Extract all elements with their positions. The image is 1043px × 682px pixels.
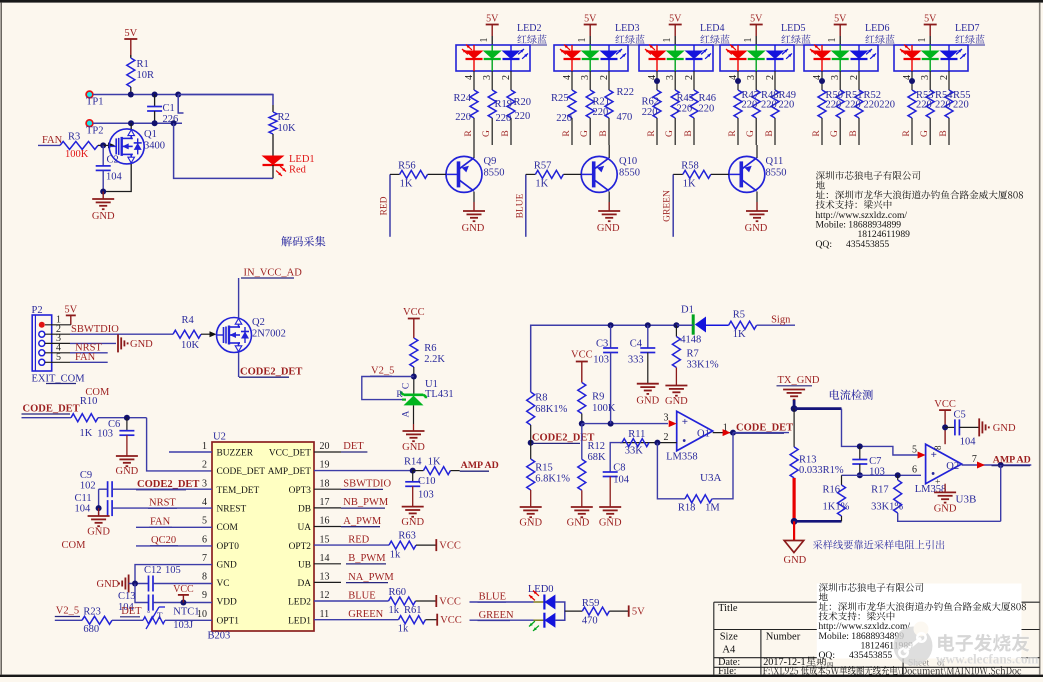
svg-text:B: B xyxy=(939,130,949,136)
resistor R24 col1 xyxy=(470,90,478,118)
svg-text:Q10: Q10 xyxy=(619,156,637,167)
wire LED2 pin4 down xyxy=(473,71,475,90)
wire Q11 collector from LED column xyxy=(756,145,758,158)
LED LED4 pin numbers xyxy=(647,75,695,80)
svg-text:R: R xyxy=(396,390,403,400)
IC U2 body xyxy=(212,442,314,631)
svg-text:5V: 5V xyxy=(64,305,77,316)
wire junction down to C13 xyxy=(135,584,149,603)
ground GND (Q11) xyxy=(746,210,768,212)
svg-text:LM358: LM358 xyxy=(915,484,947,495)
wire U3B output xyxy=(962,464,1032,466)
svg-text:C10: C10 xyxy=(418,476,436,487)
wire FAN to pin5 xyxy=(136,526,212,528)
svg-text:4: 4 xyxy=(202,497,207,508)
op-amp U3B (LM358) xyxy=(926,444,962,484)
svg-text:104: 104 xyxy=(613,475,630,486)
svg-text:C9: C9 xyxy=(80,470,92,481)
wire LED5 col2 lower xyxy=(755,118,757,145)
LED LED5 blue element xyxy=(766,45,793,71)
wire U2 pin18 stub xyxy=(314,488,341,490)
junction CODE2_DET (R8/R15) xyxy=(528,440,534,446)
svg-text:LED2: LED2 xyxy=(288,598,311,608)
svg-text:R1: R1 xyxy=(137,59,149,70)
svg-text:R: R xyxy=(812,130,822,137)
svg-text:5V: 5V xyxy=(669,14,682,25)
wire LED7 col2 lower xyxy=(929,118,931,145)
wire thick to C7 column xyxy=(794,407,841,410)
svg-text:R: R xyxy=(728,130,738,137)
LED LED3 pin numbers xyxy=(562,75,610,80)
svg-text:A: A xyxy=(402,410,412,417)
wire bottom row (sense) xyxy=(794,520,841,523)
svg-text:R2: R2 xyxy=(278,112,290,123)
wire LED3 col2 lower xyxy=(589,118,591,145)
wire top rail (amp) xyxy=(531,325,694,392)
svg-text:220: 220 xyxy=(953,100,969,111)
resistor R51 col2 xyxy=(836,90,844,118)
svg-text:C4: C4 xyxy=(630,339,643,350)
labels LED2 resistors xyxy=(453,93,531,124)
svg-text:333: 333 xyxy=(628,355,644,366)
svg-text:LED0: LED0 xyxy=(528,584,554,595)
svg-text:VCC: VCC xyxy=(439,541,461,552)
svg-text:G: G xyxy=(580,130,590,137)
svg-text:A_PWM: A_PWM xyxy=(343,516,382,527)
wire U2 pin1 stub xyxy=(169,451,212,453)
wire LED2 pin3 down xyxy=(491,71,493,90)
svg-text:104: 104 xyxy=(960,437,977,448)
svg-text:8550: 8550 xyxy=(619,168,640,179)
svg-text:GND: GND xyxy=(567,518,590,529)
svg-text:12: 12 xyxy=(320,590,330,601)
wire C12 to pin8 xyxy=(153,583,212,585)
svg-text:R21: R21 xyxy=(593,97,611,108)
svg-text:B_PWM: B_PWM xyxy=(348,553,386,564)
svg-text:CODE_DET: CODE_DET xyxy=(736,423,793,434)
ground GND (C10) xyxy=(402,506,424,508)
LED LED7 blue element xyxy=(940,45,967,71)
capacitor C6 xyxy=(126,418,128,431)
resistor R60 xyxy=(389,597,416,605)
svg-text:R16: R16 xyxy=(823,485,841,496)
title block grid xyxy=(714,602,1040,674)
net BLUE vertical wire xyxy=(525,174,527,236)
wire bracket to R59 xyxy=(565,610,583,612)
text company info block (top) xyxy=(816,171,1024,250)
junction LED5 pin4 xyxy=(735,78,741,84)
pin P2-3 xyxy=(39,340,45,346)
LED module LED5 header xyxy=(743,14,811,46)
net labels R G B (LED7) xyxy=(902,130,949,137)
resistor R53 col1 xyxy=(908,90,916,118)
net labels R G B (LED4) xyxy=(647,130,694,137)
LED LED0 blue element xyxy=(544,595,555,610)
wire U2 pin17 stub xyxy=(314,507,341,509)
wire V2_5 feedback loop xyxy=(362,377,414,400)
svg-text:11: 11 xyxy=(320,609,330,620)
svg-text:220: 220 xyxy=(826,100,842,111)
svg-text:6.8K1%: 6.8K1% xyxy=(535,474,570,485)
wire LED7 pin2 down xyxy=(948,71,950,90)
resistor R47 col1 xyxy=(734,90,742,118)
svg-text:104: 104 xyxy=(106,172,123,183)
svg-text:VC: VC xyxy=(217,579,230,589)
bottom border bar xyxy=(0,675,1043,677)
resistor R1 xyxy=(127,58,135,87)
power 5V (LED0) xyxy=(628,605,630,616)
wire U2 pin11 (GREEN) xyxy=(314,619,398,621)
svg-text:R14: R14 xyxy=(404,457,422,468)
svg-text:GND: GND xyxy=(92,211,115,222)
wire U2 pin19 (AMP_DET) xyxy=(314,470,413,472)
net GREEN vertical wire xyxy=(672,174,674,236)
LED module LED3 box xyxy=(554,45,628,71)
svg-text:FAN: FAN xyxy=(75,352,96,363)
wire LED4 pin3 down xyxy=(674,71,676,90)
wire C9 left xyxy=(99,488,108,490)
junction LED7 pin4 xyxy=(909,78,915,84)
resistor R22 col3 xyxy=(605,90,613,118)
resistor R2 xyxy=(269,112,277,134)
svg-text:R10: R10 xyxy=(80,396,98,407)
wire Q9 collector from LED column xyxy=(473,145,475,158)
wire R16 to -in row xyxy=(841,475,843,485)
svg-text:V2_5: V2_5 xyxy=(56,606,79,617)
svg-text:2: 2 xyxy=(939,75,950,80)
svg-text:220: 220 xyxy=(845,100,861,111)
transistor Q10 (8550) xyxy=(581,156,617,192)
pin P2-5 xyxy=(39,359,45,365)
power 5V (P2) xyxy=(66,314,76,316)
svg-text:1K: 1K xyxy=(733,329,746,340)
svg-text:Q1: Q1 xyxy=(144,129,157,140)
svg-text:3400: 3400 xyxy=(144,141,165,152)
top border bar xyxy=(0,0,1043,3)
transistor Q1 (3400 MOSFET) xyxy=(109,129,144,164)
svg-text:4: 4 xyxy=(562,75,573,80)
power VCC (U3B) xyxy=(939,409,951,411)
LED module LED6 box xyxy=(804,45,878,71)
resistor R25 col1 xyxy=(568,90,576,118)
svg-text:B203: B203 xyxy=(208,631,231,642)
wire +in row to opamp xyxy=(860,446,921,455)
LED module LED3 header xyxy=(577,14,645,46)
svg-text:Q11: Q11 xyxy=(766,156,784,167)
resistor R13 xyxy=(793,409,795,447)
svg-text:NRST: NRST xyxy=(149,498,176,509)
svg-text:R23: R23 xyxy=(83,607,101,618)
power VCC (R63) xyxy=(435,539,437,551)
note 采样线 xyxy=(813,540,944,549)
wire R58 to base xyxy=(711,173,729,175)
svg-text:GREEN: GREEN xyxy=(348,609,383,620)
wire C8 to GND xyxy=(609,477,611,508)
wire R2 to LED1 xyxy=(272,134,274,156)
svg-text:G: G xyxy=(746,130,756,137)
LED LED3 blue element xyxy=(600,45,627,71)
wire R63 to VCC xyxy=(416,544,436,546)
svg-text:R20: R20 xyxy=(514,97,532,108)
svg-text:°: ° xyxy=(147,609,150,618)
svg-text:BLUE: BLUE xyxy=(348,591,375,602)
wire R57 to base xyxy=(563,173,581,175)
svg-text:R6: R6 xyxy=(424,343,436,354)
power 5V (R1) xyxy=(124,38,137,40)
wire LED4 pin2 down xyxy=(693,71,695,90)
svg-text:LED6: LED6 xyxy=(865,23,889,34)
svg-text:GND: GND xyxy=(130,339,153,350)
wire R2 top stub xyxy=(272,105,274,112)
resistor R62 col1 xyxy=(653,90,661,118)
labels LED5 resistors xyxy=(742,90,797,111)
wire R60 to VCC xyxy=(416,600,437,602)
wire gate arrow xyxy=(103,144,109,146)
svg-text:5V: 5V xyxy=(924,14,937,25)
wire LED3 pin4 down xyxy=(571,71,573,90)
svg-text:1K: 1K xyxy=(428,457,441,468)
svg-text:www.elecfans.com: www.elecfans.com xyxy=(936,652,1039,667)
svg-text:V2_5: V2_5 xyxy=(371,366,394,377)
wire AMP_AD feedback xyxy=(1000,465,1002,521)
wire GREEN to LED0 xyxy=(470,619,534,621)
svg-text:R9: R9 xyxy=(592,392,604,403)
svg-text:Red: Red xyxy=(289,165,307,176)
wire NTC1 to pin10 xyxy=(165,619,212,621)
capacitor C11 xyxy=(107,500,109,516)
svg-text:A4: A4 xyxy=(722,645,736,656)
IC U2 right pin names xyxy=(268,449,312,627)
svg-text:TEM_DET: TEM_DET xyxy=(217,486,260,496)
capacitor C13 xyxy=(148,595,150,611)
svg-text:R25: R25 xyxy=(551,93,569,104)
junction U3A out xyxy=(730,430,736,436)
svg-text:G: G xyxy=(830,130,840,137)
net labels R G B (LED5) xyxy=(728,130,775,137)
svg-text:UB: UB xyxy=(298,560,311,570)
junction VCC (pin9) xyxy=(180,600,186,606)
wire to U2 pin2 xyxy=(147,418,212,471)
wire Q10 base row xyxy=(526,173,536,175)
svg-text:8: 8 xyxy=(933,445,943,450)
svg-text:AMP AD: AMP AD xyxy=(993,455,1031,466)
svg-text:3: 3 xyxy=(202,478,207,489)
svg-text:14: 14 xyxy=(320,553,330,564)
wire TX_GND down xyxy=(793,400,796,409)
svg-text:R4: R4 xyxy=(182,315,195,326)
LED module LED4 box xyxy=(639,45,713,71)
wire LED6 pin3 down xyxy=(839,71,841,90)
capacitor C5 xyxy=(945,426,955,428)
wire C6 to GND xyxy=(126,435,128,456)
svg-text:GND: GND xyxy=(597,223,620,234)
wire TP1 rail xyxy=(93,94,273,96)
svg-text:Number: Number xyxy=(766,632,801,643)
svg-text:O1: O1 xyxy=(697,429,710,440)
svg-text:33K1%: 33K1% xyxy=(871,502,903,513)
capacitor C12 xyxy=(148,576,150,592)
title block texts xyxy=(718,603,1021,677)
svg-text:435453855: 435453855 xyxy=(846,239,889,250)
svg-text:9: 9 xyxy=(202,590,207,601)
svg-text:6: 6 xyxy=(912,465,917,476)
pin numbers P2 xyxy=(56,315,61,364)
svg-text:D1: D1 xyxy=(681,305,694,316)
svg-text:103: 103 xyxy=(418,490,434,501)
resistor R45 col2 xyxy=(671,90,679,118)
wire LED5 col3 lower xyxy=(774,118,776,145)
svg-text:U2: U2 xyxy=(213,432,226,443)
svg-text:DB: DB xyxy=(298,504,311,514)
svg-text:+: + xyxy=(682,416,688,428)
svg-text:4148: 4148 xyxy=(680,335,701,346)
svg-text:1: 1 xyxy=(662,38,673,43)
wire R9 to junction xyxy=(581,414,583,424)
wire LED5 pin4 down xyxy=(737,71,739,90)
svg-text:LED1: LED1 xyxy=(288,616,311,626)
resistor R4 xyxy=(173,330,201,338)
wire P2-3 to GND xyxy=(45,342,70,344)
svg-text:1k: 1k xyxy=(398,623,409,634)
test point TP1 xyxy=(86,91,93,98)
wire to GND (Q1) xyxy=(102,192,104,200)
ground triangle GND (sense) xyxy=(784,541,804,553)
resistor R48 col2 xyxy=(752,90,760,118)
svg-text:C2: C2 xyxy=(107,155,119,166)
svg-text:R60: R60 xyxy=(389,587,407,598)
svg-text:G: G xyxy=(920,130,930,137)
svg-text:1: 1 xyxy=(577,38,588,43)
junction C12 xyxy=(132,581,138,587)
ground GND (R12) xyxy=(571,506,593,508)
wire bottom loop to TP2 xyxy=(174,123,273,178)
resistor R63 xyxy=(389,541,416,549)
LED LED4 green element xyxy=(666,45,685,71)
wire LED6 col3 lower xyxy=(858,118,860,145)
labels LED6 resistors xyxy=(826,90,896,111)
svg-text:DA: DA xyxy=(297,579,311,589)
svg-text:CODE_DET: CODE_DET xyxy=(23,404,80,415)
ground GND (R15) xyxy=(520,506,542,508)
svg-text:NB_PWM: NB_PWM xyxy=(343,497,389,508)
junction C3 bottom xyxy=(608,421,614,427)
svg-text:5V: 5V xyxy=(632,607,645,618)
svg-text:C12: C12 xyxy=(144,565,162,576)
svg-text:FAN: FAN xyxy=(150,517,171,528)
svg-text:10K: 10K xyxy=(278,123,297,134)
resistor R20 col3 xyxy=(507,90,515,118)
svg-text:VCC: VCC xyxy=(934,399,956,410)
svg-text:R3: R3 xyxy=(68,132,80,143)
IC U2 left pin names xyxy=(217,449,266,627)
wire R16 bottom xyxy=(841,516,843,521)
svg-text:QC20: QC20 xyxy=(151,535,176,546)
junction TP2-Q1 xyxy=(128,120,134,126)
net labels R G B (LED3) xyxy=(562,130,609,137)
junction C7 top xyxy=(857,443,863,449)
svg-text:1: 1 xyxy=(479,38,490,43)
wire Q1 drain xyxy=(130,123,132,129)
wire U3B to GND xyxy=(944,484,946,493)
resistor R11 xyxy=(622,439,649,447)
svg-text:GND: GND xyxy=(599,518,622,529)
svg-text:CODE2_DET: CODE2_DET xyxy=(532,433,594,444)
svg-text:1M: 1M xyxy=(705,503,720,514)
svg-text:B: B xyxy=(684,130,694,136)
transistor Q11 (8550) xyxy=(729,156,765,192)
svg-text:Size: Size xyxy=(720,632,738,643)
svg-text:103: 103 xyxy=(97,429,113,440)
wire LED7 pin3 down xyxy=(929,71,931,90)
wire gnd-side to junction xyxy=(129,583,149,585)
svg-text:C11: C11 xyxy=(75,493,92,504)
wire Q9 emitter to GND xyxy=(473,192,475,203)
LED LED4 red element xyxy=(645,45,667,71)
svg-text:1: 1 xyxy=(827,38,838,43)
LED LED7 pin numbers xyxy=(902,75,950,80)
svg-text:R17: R17 xyxy=(871,485,889,496)
wire LED4 col2 lower xyxy=(674,118,676,145)
junction TP1-stub xyxy=(175,92,181,98)
wire Q10 emitter to GND xyxy=(608,192,610,203)
svg-text:R15: R15 xyxy=(535,463,553,474)
svg-text:5V: 5V xyxy=(124,28,137,39)
junction LED6 pin4 xyxy=(819,78,825,84)
wire R5 to Sign xyxy=(757,324,795,326)
wire Q11 emitter to GND xyxy=(756,192,758,203)
svg-text:220: 220 xyxy=(556,113,572,124)
wire LED6 col1 lower xyxy=(821,118,823,145)
svg-text:GND: GND xyxy=(402,442,425,453)
resistor R57 xyxy=(535,170,563,178)
ground GND (Q9) xyxy=(463,210,485,212)
resistor R9 xyxy=(578,383,586,414)
junction R11/feedback xyxy=(654,440,660,446)
svg-text:R57: R57 xyxy=(534,160,552,171)
resistor R49 col3 xyxy=(771,90,779,118)
svg-text:2: 2 xyxy=(765,75,776,80)
wire Q2 source down xyxy=(238,353,240,378)
power VCC (pin9) xyxy=(182,595,184,603)
svg-text:220: 220 xyxy=(916,100,932,111)
wire LED0 bracket xyxy=(555,602,564,620)
svg-text:CODE2_DET: CODE2_DET xyxy=(137,479,199,490)
junction LED4 pin4 xyxy=(654,78,660,84)
wire LED7 col3 lower xyxy=(948,118,950,145)
svg-text:R45: R45 xyxy=(677,93,695,104)
svg-text:GND: GND xyxy=(97,579,120,590)
ground GND (Q10) xyxy=(598,210,620,212)
wire LED7 pin4 down xyxy=(911,71,913,90)
left border line xyxy=(0,3,2,675)
wire C11 to pin4 xyxy=(112,507,212,509)
svg-text:68K: 68K xyxy=(588,452,607,463)
wire LED5 pin2 down xyxy=(774,71,776,90)
ground GND (C6) xyxy=(116,455,138,457)
svg-text:R56: R56 xyxy=(398,160,416,171)
svg-text:U3B: U3B xyxy=(956,494,977,506)
wire R15 to GND xyxy=(530,490,532,507)
svg-text:B: B xyxy=(849,130,859,136)
capacitor C9 xyxy=(107,481,109,497)
wire LED4 col3 lower xyxy=(693,118,695,145)
wire P2-1 to 5V xyxy=(45,324,71,326)
junction TX_GND xyxy=(791,405,798,412)
svg-text:33K: 33K xyxy=(625,446,644,457)
svg-text:2: 2 xyxy=(684,75,695,80)
svg-text:105: 105 xyxy=(165,565,181,576)
svg-text:470: 470 xyxy=(617,112,633,123)
